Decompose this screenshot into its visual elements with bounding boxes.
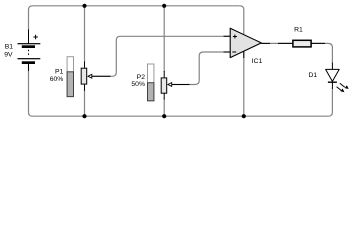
wire: P1 wiper to op-amp non-inverting input xyxy=(92,36,230,76)
svg-text:P2: P2 xyxy=(137,74,146,81)
svg-text:IC1: IC1 xyxy=(252,58,263,65)
svg-text:P1: P1 xyxy=(55,69,64,76)
wire: op-amp V+ drop from top rail xyxy=(240,6,244,35)
battery B1 xyxy=(18,30,41,72)
svg-text:9V: 9V xyxy=(4,52,13,59)
svg-text:60%: 60% xyxy=(50,76,64,83)
potentiometer P2 slider control xyxy=(148,64,154,101)
potentiometer P1 body xyxy=(84,62,86,91)
wire: P2 bottom drop xyxy=(163,99,165,117)
wire: left rail top (battery + to top rail) xyxy=(29,6,33,31)
potentiometer P1 slider control xyxy=(67,57,73,97)
svg-text:R1: R1 xyxy=(294,27,303,34)
potentiometer P2 wiper arrow xyxy=(168,83,190,87)
wire: top rail xyxy=(33,5,240,7)
wire: op-amp V- drop to bottom rail xyxy=(243,51,245,116)
wire: left rail bottom + bottom rail + right riser to D1 xyxy=(29,65,333,117)
potentiometer P2 body xyxy=(163,71,165,100)
op-amp IC1 output lead xyxy=(261,42,270,44)
potentiometer P1 wiper arrow xyxy=(88,74,111,78)
op-amp IC1 xyxy=(230,28,261,57)
diode D1 leads xyxy=(331,63,333,89)
node: bottom rail / P1 junction xyxy=(82,114,86,118)
node: top rail / P1 junction xyxy=(82,4,86,8)
diode D1 light emission arrows xyxy=(337,83,349,92)
op-amp IC1 input pin stubs xyxy=(224,36,231,52)
node: top rail / P2 junction xyxy=(162,4,166,8)
resistor R1 xyxy=(293,40,311,47)
svg-text:B1: B1 xyxy=(5,43,14,50)
op-amp IC1 negative power pin stub xyxy=(243,51,245,58)
node: bottom rail / P2 junction xyxy=(162,114,166,118)
resistor R1 leads xyxy=(278,42,325,44)
wire: op-amp output to R1 to D1 riser xyxy=(261,43,332,63)
diode D1 (LED) xyxy=(326,69,340,82)
wire: P2 top drop xyxy=(163,6,165,72)
svg-text:50%: 50% xyxy=(131,81,145,88)
wire: P1 bottom drop xyxy=(84,90,86,117)
wire: P2 wiper to op-amp inverting input xyxy=(172,52,230,85)
wire: P1 top drop xyxy=(84,6,86,63)
node: bottom rail / op-amp V- junction xyxy=(242,114,246,118)
svg-text:D1: D1 xyxy=(309,72,318,79)
